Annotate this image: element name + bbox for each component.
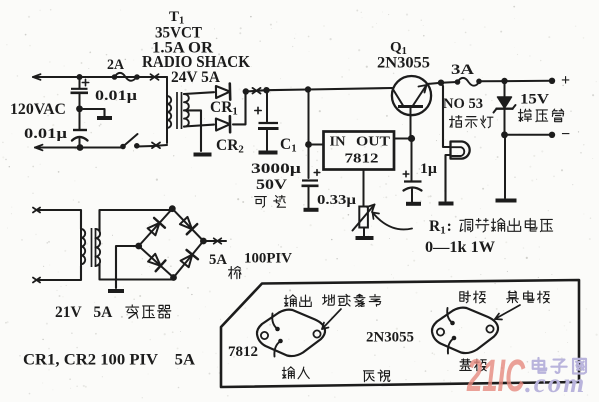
label 15V zener [518,92,563,122]
svg-text:2N3055: 2N3055 [377,55,430,72]
svg-text:.com: .com [525,368,586,398]
diode CR1 [216,84,230,100]
label CR2 [216,137,244,156]
node bridge top [169,205,176,212]
capacitor 0.01u upper [71,74,89,105]
transformer T1 primary [167,77,171,143]
label bottom view [364,370,390,382]
svg-text:21IC: 21IC [466,350,526,401]
wire minus row [505,134,553,136]
hole 2N3055 right [486,325,493,332]
bridge diode D3 bottom-left [148,254,165,271]
svg-text:2N3055: 2N3055 [366,330,414,346]
fuse F1 2A [112,73,159,81]
wire lamp to ground [446,155,451,201]
lamp NO53 [451,142,470,159]
ground [356,236,374,240]
package 2N3055 TO-3 outline [432,308,498,353]
switch S1 [120,134,139,149]
ground [439,202,454,206]
bridge diode D2 top-right [180,217,197,234]
watermark [466,350,586,401]
wire secondary bottom lead [184,125,214,127]
svg-text:+: + [561,72,570,89]
ground [97,116,112,120]
svg-text:7812: 7812 [228,344,258,360]
label 5A bridge 100PIV [209,251,293,279]
regulator U1 7812 box [324,132,395,170]
node zener tap [501,78,507,84]
svg-text:5A: 5A [209,252,227,268]
label Q1 2N3055 [377,40,430,72]
transformer T1 secondary [184,94,189,127]
label 7812 package [228,344,258,360]
label 0.01u lower [24,126,68,142]
svg-text:2A: 2A [107,57,124,73]
label CR1 [210,99,238,118]
label 0.01u upper [95,88,138,104]
label collector + arrow [495,291,549,320]
svg-text:7812: 7812 [345,151,379,166]
wire AC bottom line [35,143,167,151]
wire main bus [246,88,392,94]
svg-text:3000µ: 3000µ [251,161,302,177]
node CR junction [243,88,249,94]
ground [496,199,517,203]
transformer T2 core [92,228,96,267]
svg-text:120VAC: 120VAC [10,101,66,118]
label 120VAC [10,101,66,118]
svg-text:0.01µ: 0.01µ [24,126,68,142]
label 1u [420,161,437,177]
fuse F2 3A [441,78,482,86]
potentiometer R1 [353,205,375,237]
hole 2N3055 left [437,328,444,335]
capacitor 1u [403,139,421,203]
label 2A [107,57,124,73]
node bottom junction [77,144,84,151]
wire fuse to plus terminal [479,80,552,83]
wire to ground arm [83,109,105,116]
svg-text:1µ: 1µ [420,161,437,177]
label CR1 CR2 rating [23,352,195,369]
bridge diode D1 top-left [148,218,165,235]
wire IN drop [308,90,310,179]
node OUT junction [408,135,415,142]
node lamp tap [438,80,444,86]
wire zener to ground [504,135,506,198]
node plus terminal [549,72,570,89]
svg-text:15V: 15V [520,92,549,108]
pin 2N3055 base [448,336,456,354]
label NO 53 indicator [443,96,493,128]
wire bridge left to ground [116,246,139,288]
svg-text:0.33µ: 0.33µ [317,193,356,208]
node IN tap [305,86,311,92]
svg-text:50V: 50V [256,177,288,193]
pin 7812 output [272,314,280,332]
svg-text:OUT: OUT [356,134,390,149]
label 3A [451,62,474,78]
ground [194,153,212,157]
node minus terminal [549,126,570,143]
node bridge bottom [170,274,177,281]
svg-text:CR1, CR2 100 PIV 5A: CR1, CR2 100 PIV 5A [23,352,195,369]
svg-text:0.01µ: 0.01µ [95,88,138,104]
wire secondary bottom to bridge [100,264,174,280]
label 21V 5A transformer [55,304,171,321]
hole 7812 right [313,330,320,337]
diode CR2 [216,116,230,132]
wire IN pin [309,144,324,146]
label output pin [284,295,311,307]
wire OUT pin [394,138,412,140]
transformer T1 core [177,92,182,129]
capacitor C1 [255,90,279,150]
ground [259,151,278,155]
label R1 adjust output voltage [425,218,553,256]
svg-text:21V 5A: 21V 5A [55,304,113,321]
node minus junction [501,131,508,138]
hole 7812 left [261,332,268,339]
wire AC top line [33,74,167,80]
label T1 block [142,9,250,86]
pointer arrow to R1 [373,213,413,230]
bridge rectifier edges [139,209,204,278]
capacitor 0.33u [302,170,320,208]
wire T2 top lead [33,208,81,230]
transformer T2 primary [81,211,85,279]
label emitter [460,291,485,303]
svg-text:24V 5A: 24V 5A [171,69,221,86]
wire secondary top lead [184,92,214,94]
ground [304,208,319,212]
label input pin [282,367,309,379]
label 0.33u [317,193,356,208]
wire secondary top to bridge [100,209,173,231]
node bridge right [200,238,207,245]
svg-text:−: − [561,126,570,143]
ground [108,289,124,293]
wire GND pin down [363,170,365,207]
wire center tap to ground [184,110,201,151]
label 3000u 50V optional [251,161,302,207]
package 7812 TO-3 outline [257,310,325,356]
node IN junction [305,141,312,148]
pin 7812 input [274,339,282,357]
pinout box outline [221,280,579,387]
ground [406,202,421,206]
zener diode 15V [494,81,516,135]
label ground-or-ref + arrow [322,294,381,329]
svg-text:100PIV: 100PIV [244,251,293,267]
svg-text:3A: 3A [451,62,474,78]
wire bridge output arm [203,238,226,243]
node bridge left [135,243,142,250]
label 2N3055 package [366,330,414,346]
transistor Q1 2N3055 [392,76,431,139]
node C1 tap [263,87,269,93]
svg-text:0—1k 1W: 0—1k 1W [425,239,496,256]
pin 2N3055 emitter [447,308,455,325]
bridge diode D4 bottom-right [181,250,198,267]
transformer T2 secondary [96,229,101,266]
svg-text:IN: IN [330,134,346,149]
node middle junction [76,105,83,112]
label base [460,359,486,371]
svg-text:NO 53: NO 53 [443,96,483,112]
wire CR2 up to bus [233,92,246,125]
capacitor 0.01u lower [72,112,88,148]
wire emitter to fuse [428,83,442,84]
label C1 [280,136,297,155]
wire lamp drop [441,83,450,147]
wire T2 bottom lead [33,266,81,283]
